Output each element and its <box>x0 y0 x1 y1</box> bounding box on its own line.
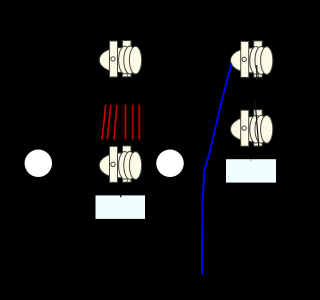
black rope over P3 <box>256 65 258 80</box>
blue rope <box>202 64 232 275</box>
left weight box <box>96 195 146 219</box>
strand 2 <box>107 105 111 140</box>
pulley P4 right lower <box>231 110 273 147</box>
right weight box <box>226 159 276 182</box>
strand 3 <box>114 105 117 140</box>
pulley P3 top right <box>231 41 273 78</box>
rope tick redraw over box <box>120 195 122 197</box>
rope tick into left weight box <box>120 193 122 198</box>
strand 1 <box>102 105 106 140</box>
strand 4 <box>125 105 127 140</box>
black rope over P4 <box>255 100 259 147</box>
strand 6 <box>138 105 140 140</box>
strand 5 <box>132 105 134 140</box>
left white ball <box>25 150 53 178</box>
pulley P2 lower middle <box>99 146 141 183</box>
right white ball <box>156 150 184 178</box>
pulley P1 top middle <box>99 41 141 78</box>
red rope strands between P1 and P2 <box>102 105 139 140</box>
faint rope tick into right weight box <box>250 159 252 161</box>
